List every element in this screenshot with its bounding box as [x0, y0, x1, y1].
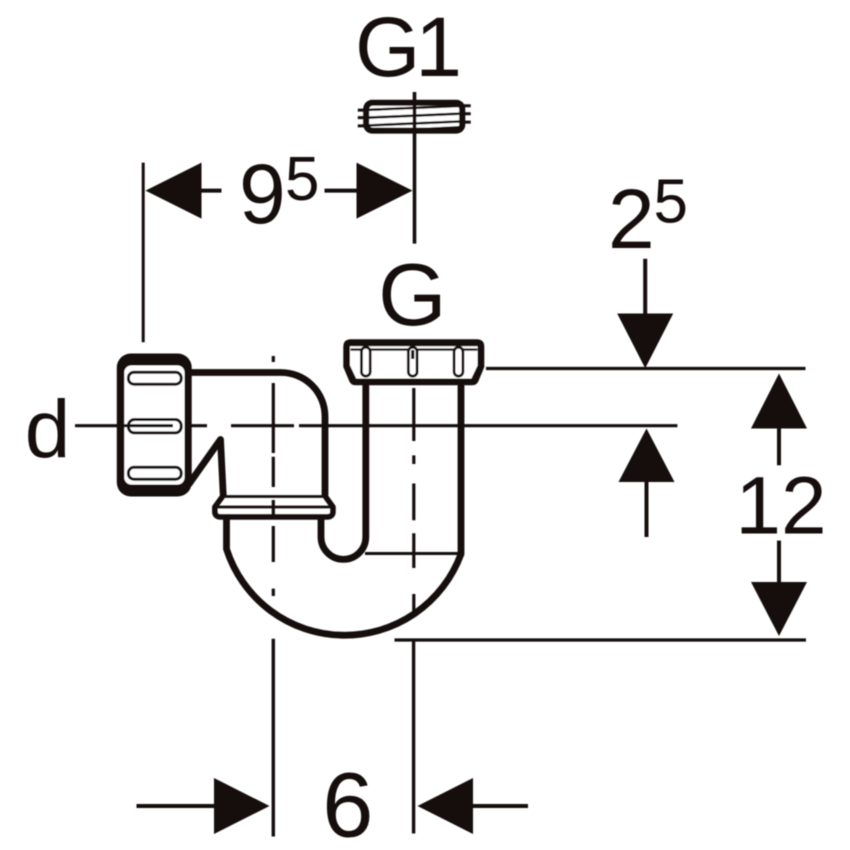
reference line at bottom of trap	[395, 638, 807, 641]
drop pipe inner wall, small U bend, outlet pipe left wall	[321, 386, 366, 559]
dim 9.5 left arrowhead	[146, 163, 202, 219]
dim 6 right arrowhead	[418, 778, 474, 834]
svg-text:2: 2	[608, 172, 655, 266]
G nut rim line	[351, 348, 478, 350]
extension line left for dim 9.5	[142, 163, 145, 343]
flange top line	[223, 495, 325, 498]
dim 2.5 up stem	[645, 482, 649, 537]
dim 12 down arrowhead	[751, 582, 807, 636]
flange collar outline	[215, 497, 333, 518]
dim 6 left stem	[137, 804, 215, 808]
svg-text:9: 9	[239, 147, 286, 241]
union nut slot 2	[128, 420, 181, 433]
G nut slot middle	[408, 347, 417, 376]
drop pipe wall, trap bowl outer arc, outlet pipe right wall	[227, 386, 462, 635]
G1 thread fitting outer body	[363, 100, 465, 134]
elbow outer contour	[189, 373, 326, 495]
svg-text:12: 12	[735, 461, 826, 552]
flange mid line	[215, 506, 333, 509]
dim 12 down stem	[777, 541, 781, 582]
seam line across outlet pipe	[365, 552, 462, 555]
dim 2.5 down arrowhead	[617, 314, 673, 369]
svg-text:6: 6	[322, 755, 373, 850]
svg-text:G1: G1	[355, 0, 458, 94]
G nut slot left	[361, 347, 370, 376]
extension line left for dim 6	[272, 639, 275, 837]
dim 9.5 right arrowhead	[357, 163, 413, 219]
drop pipe centerline (chain)	[272, 356, 275, 596]
union nut slot 3	[128, 467, 181, 479]
dim 2.5 down stem	[643, 259, 647, 314]
union nut (inlet side) outer body	[117, 354, 192, 497]
dim 9.5 right stub	[325, 189, 358, 193]
extension line right for dim 6	[412, 639, 415, 834]
vertical centerline through G1 fitting	[413, 92, 417, 244]
union nut inner face	[124, 366, 184, 485]
G nut inner face	[350, 346, 478, 378]
dim 2.5 up arrowhead	[619, 429, 675, 483]
svg-text:5: 5	[285, 145, 319, 214]
G nut outer body	[343, 339, 484, 385]
G1 thread ticks left	[358, 110, 365, 126]
elbow underside notch	[189, 440, 223, 495]
centerline dash inside middle slot	[411, 350, 414, 359]
dim 6 right stem	[473, 804, 528, 808]
svg-text:G: G	[378, 245, 446, 344]
dim 9.5 left stub	[201, 189, 222, 193]
G1 thread lines	[369, 106, 460, 132]
d axis chain line	[75, 424, 677, 427]
union nut slot 1	[128, 372, 181, 384]
svg-text:d: d	[25, 384, 71, 475]
G nut slot right	[454, 347, 463, 376]
dim 6 left arrowhead	[214, 778, 270, 834]
outlet pipe centerline (chain)	[412, 388, 415, 612]
dim 12 up stem	[777, 429, 781, 466]
G1 thread fitting inner face	[369, 106, 459, 128]
reference line at top of G nut	[486, 367, 806, 370]
dim 12 up arrowhead	[751, 374, 807, 429]
G1 thread ticks right	[464, 106, 471, 122]
svg-text:5: 5	[654, 167, 688, 236]
